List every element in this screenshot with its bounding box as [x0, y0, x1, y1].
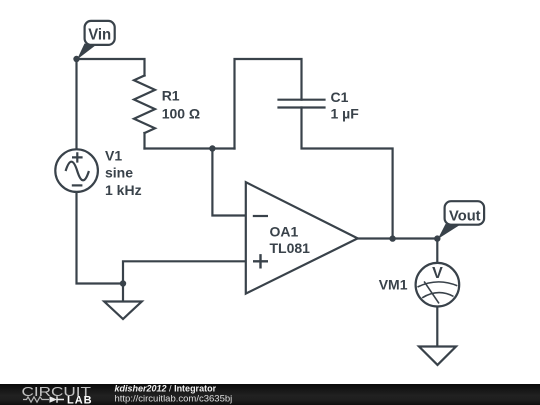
svg-text:sine: sine [105, 165, 133, 181]
voltage source V1 circle [55, 149, 98, 192]
wire V1 bottom to ground node [77, 193, 124, 284]
junction dot node A [209, 145, 215, 151]
svg-text:R1: R1 [162, 88, 180, 104]
svg-text:http://circuitlab.com/c3635bj: http://circuitlab.com/c3635bj [115, 394, 233, 405]
ground symbol 1 [104, 302, 142, 320]
CircuitLab logo resistor motif [23, 397, 49, 402]
V1 plus sign [72, 152, 83, 162]
capacitor C1 plates [279, 100, 325, 108]
node label Vout pointer [438, 224, 459, 239]
svg-text:1 kHz: 1 kHz [105, 182, 142, 198]
wire op-amp output [358, 237, 438, 239]
junction dot ground node [120, 280, 126, 286]
svg-text:TL081: TL081 [270, 240, 311, 256]
voltmeter scale arc lower [422, 293, 453, 298]
V1 minus sign [72, 184, 83, 186]
svg-text:OA1: OA1 [270, 223, 299, 239]
svg-text:1 µF: 1 µF [331, 105, 360, 121]
footer bar [0, 384, 540, 405]
wire R1 bottom lead [143, 133, 145, 149]
svg-text:V1: V1 [105, 147, 122, 163]
wire VM1 top lead [436, 239, 438, 263]
wire feedback left and top to C1 [235, 59, 302, 149]
wire V1 top lead [75, 59, 77, 149]
voltmeter scale arc upper [418, 282, 458, 287]
wire VM1 bottom lead [436, 307, 438, 347]
resistor R1 [134, 76, 155, 134]
voltmeter VM1 circle [416, 263, 460, 307]
svg-text:kdisher2012 / Integrator: kdisher2012 / Integrator [115, 384, 217, 394]
wire inverting input branch [212, 149, 245, 216]
svg-text:Vout: Vout [449, 207, 481, 224]
junction dot Vin node [73, 56, 79, 62]
ground symbol 2 [419, 347, 456, 365]
wire C1 bottom to output node [302, 108, 393, 239]
op-amp minus input symbol [253, 215, 268, 217]
svg-text:C1: C1 [331, 89, 349, 105]
svg-text:100 Ω: 100 Ω [162, 105, 200, 121]
voltmeter needle [424, 281, 439, 303]
svg-text:VM1: VM1 [379, 277, 408, 293]
wire node A horizontal [145, 147, 235, 149]
node label Vout bubble [445, 201, 485, 225]
op-amp OA1 triangle [246, 182, 358, 293]
node label Vin bubble [85, 21, 115, 45]
wire ground stem 1 [122, 284, 124, 302]
junction dot Vout node [434, 235, 440, 241]
svg-text:LAB: LAB [67, 395, 93, 405]
svg-text:V: V [432, 265, 443, 282]
node label Vin pointer [77, 44, 96, 60]
op-amp plus input symbol [253, 254, 268, 268]
V1 sine wave [66, 162, 89, 181]
junction dot feedback output [389, 235, 395, 241]
wire non-inverting input branch [123, 261, 246, 283]
wire Vin node to R1 top [77, 59, 145, 76]
CircuitLab logo diode motif [50, 396, 58, 402]
svg-text:Vin: Vin [88, 27, 111, 44]
